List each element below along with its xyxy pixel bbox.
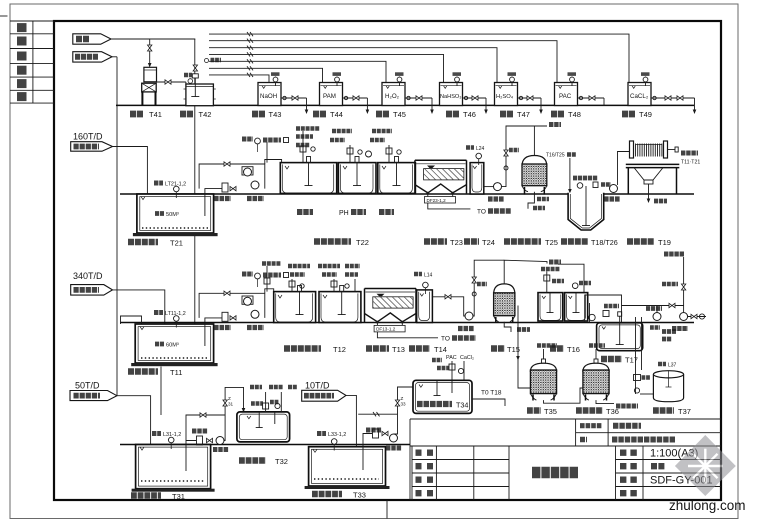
svg-text:Z: Z [228, 396, 231, 401]
svg-text:T24: T24 [482, 238, 495, 247]
label T46 [446, 110, 476, 119]
manifold loop [199, 293, 265, 318]
svg-text:zhulong.com: zhulong.com [669, 498, 746, 513]
label T37 [653, 407, 691, 416]
dosing hardware above T22-3 [370, 131, 401, 163]
riser to T32 [223, 387, 245, 440]
T31 suction pipe [186, 441, 196, 472]
T13 sludge drains DF13-1,2 [374, 321, 476, 343]
T11 drain to row below [160, 367, 162, 416]
label T36 [576, 407, 619, 416]
basin T33 [305, 447, 390, 489]
T42 steam valve [193, 65, 197, 71]
reuse water tank T17 [597, 312, 643, 351]
svg-text:T23: T23 [450, 238, 463, 247]
label T12 [284, 345, 346, 354]
svg-text:T19: T19 [658, 238, 671, 247]
T36 outlet to reuse [596, 400, 638, 406]
pump labels [214, 196, 264, 201]
compartment name 1 [297, 209, 313, 215]
CaCl2 tank T49 [628, 72, 651, 105]
T15 top outlet [504, 260, 561, 284]
svg-text:T16: T16 [567, 345, 580, 354]
svg-text:PH: PH [339, 210, 349, 217]
svg-text:NaHSO₃: NaHSO₃ [440, 94, 462, 100]
label T23 [424, 238, 463, 247]
floor line row2 [120, 193, 694, 195]
设计 [416, 490, 434, 496]
flag compressed air inlet [73, 52, 112, 62]
svg-text:T11·T21: T11·T21 [681, 160, 700, 166]
T42 water fill fitting [205, 59, 222, 63]
discharge to T22 [265, 160, 282, 165]
dosing hardware above T12-1 [288, 266, 310, 292]
filter press T19 stand [626, 164, 680, 194]
valve [382, 431, 388, 435]
svg-text:T33: T33 [353, 490, 366, 499]
svg-text:T46: T46 [463, 110, 476, 119]
label T32 [239, 457, 288, 466]
svg-text:NaOH: NaOH [260, 93, 277, 100]
dissolving tank T42 [184, 84, 216, 106]
T19 discharge hopper [634, 168, 667, 203]
pump P21 [251, 181, 259, 189]
label T11 [128, 368, 182, 377]
label T31 [131, 492, 185, 501]
reuse water note [662, 332, 676, 340]
pump labels [192, 431, 229, 450]
svg-text:T12: T12 [333, 345, 346, 354]
P24 riser to filter T25 [502, 125, 562, 187]
svg-text:T13: T13 [392, 345, 405, 354]
svg-text:T14: T14 [434, 345, 447, 354]
dosing hardware above T12-2 [318, 266, 360, 292]
air main drop (long vertical) [116, 57, 118, 396]
T46 outlet with metering pump [463, 96, 488, 114]
svg-text:T11: T11 [170, 368, 182, 377]
svg-text:PAM: PAM [323, 93, 336, 100]
sand filter vessel T25 [522, 126, 547, 195]
title block texts [416, 426, 713, 494]
reuse header above T17 [622, 305, 684, 307]
svg-text:L24: L24 [476, 146, 485, 152]
valve [230, 186, 236, 190]
bottom margin divider [386, 500, 388, 519]
子项 label [580, 437, 587, 443]
compartment name 3 [379, 209, 394, 215]
manifold loop [199, 164, 265, 189]
T37 feed fittings [634, 317, 661, 394]
legend table top-left [10, 21, 54, 103]
pipe T41 to T42 [156, 80, 186, 85]
T15 drain note [504, 322, 530, 332]
T21 suction pipe [205, 189, 222, 216]
label T24 [464, 238, 495, 247]
T12-1 mixer [296, 286, 304, 316]
reaction tank T22 compartment 1 [280, 163, 336, 194]
reaction tank T22 compartment 2 [338, 163, 376, 194]
svg-text:T48: T48 [568, 110, 581, 119]
label T42 [180, 110, 211, 119]
T41 rotary valve box [142, 83, 157, 92]
label T16 [550, 345, 580, 354]
T44 outlet with metering pump [343, 96, 370, 114]
floor line bottom row [120, 444, 410, 446]
svg-text:T32: T32 [275, 457, 288, 466]
svg-text:T37: T37 [678, 407, 691, 416]
flag steam inlet [73, 34, 111, 44]
air pipe stub from flag2 [112, 56, 117, 58]
pump P24 [484, 183, 504, 199]
header break marks [247, 32, 253, 77]
flag cyanide wastewater [70, 391, 117, 401]
hopper T41 upper bin [144, 67, 157, 82]
floor line row3 [120, 322, 694, 324]
svg-text:T21: T21 [170, 238, 183, 247]
subproject value 电镀工业废水处理工程 [612, 437, 676, 443]
图别 [620, 463, 637, 469]
svg-text:TO: TO [477, 209, 486, 216]
P14 riser to T15 [472, 260, 504, 316]
ground line row1 [116, 104, 694, 106]
svg-text:L14: L14 [424, 272, 433, 278]
dosing water header 5 (to T45) [209, 61, 386, 82]
strainer [373, 429, 379, 438]
intermediate tank T14 [417, 290, 433, 323]
NaHSO3 tank T46 [440, 72, 463, 105]
审核 [416, 463, 434, 469]
strainer [222, 183, 228, 192]
T49 outlet with metering pump [651, 96, 696, 114]
reaction tank T12 compartment 1 [274, 292, 316, 323]
dosing water header 1 (to T49) [209, 34, 629, 82]
PH21 probe [242, 138, 260, 152]
svg-text:H₂SO₄: H₂SO₄ [496, 94, 514, 100]
T47 outlet with metering pump [518, 96, 543, 114]
label T47 [500, 110, 530, 119]
flag concentrated cyanide wastewater [302, 390, 346, 401]
T33 suction pipe [363, 434, 372, 471]
valve [230, 316, 236, 320]
steam main drop (long vertical) [194, 39, 196, 362]
flag plating wastewater [71, 285, 113, 296]
pump labels [366, 430, 402, 448]
manifold box above T17 [585, 295, 622, 322]
steam pipe to T42 [111, 38, 195, 40]
level transmitter L31 [152, 432, 181, 449]
reaction tank T34 [413, 380, 472, 413]
svg-text:CaCl₂: CaCl₂ [460, 355, 474, 361]
label T25 [504, 238, 558, 247]
label T48 [551, 110, 581, 119]
backwash feed line [662, 254, 686, 312]
svg-text:33: 33 [401, 402, 407, 407]
strainer [222, 312, 228, 321]
multimedia filter T36 [583, 349, 609, 401]
svg-text:T31: T31 [172, 492, 185, 501]
level transmitter LT21 [154, 181, 186, 198]
label T44 [313, 110, 343, 119]
svg-text:PAC: PAC [446, 355, 457, 361]
T25 drains [528, 192, 549, 209]
svg-text:Z: Z [401, 396, 404, 401]
svg-text:10T/D: 10T/D [305, 381, 330, 391]
drawing-title cell [615, 446, 617, 500]
label T14 [409, 345, 447, 354]
TITLE BLOCK [410, 419, 721, 500]
settler T23 [415, 160, 467, 193]
T34 dosing: PAC / CaCl2 [432, 355, 474, 380]
left margin tick [0, 15, 8, 17]
T11 suction pipe [205, 318, 222, 346]
svg-text:340T/D: 340T/D [73, 271, 103, 281]
日期 [620, 490, 637, 496]
svg-text:T0 T18: T0 T18 [481, 390, 502, 397]
图号 [620, 477, 637, 483]
校对 [416, 477, 434, 483]
T21 volume note [155, 212, 179, 218]
label T17 [601, 355, 638, 364]
label T33 [312, 490, 366, 499]
svg-text:TO: TO [441, 336, 450, 343]
inlet pipe to T11 [113, 290, 167, 331]
T48 outlet with metering pump [578, 96, 605, 106]
NaOH dosing line into T22-1 [267, 129, 320, 163]
watermark logo [675, 435, 736, 496]
label T21 [128, 238, 183, 247]
pump labels [214, 325, 264, 330]
svg-text:L37: L37 [668, 362, 677, 368]
label T13 [366, 345, 405, 354]
LS11 level switch [263, 273, 289, 278]
carbon filter T35 [530, 349, 556, 401]
T23 sludge drains DF23-1,2 [425, 192, 512, 216]
svg-text:50T/D: 50T/D [75, 381, 100, 391]
svg-text:T43: T43 [269, 110, 282, 119]
svg-text:T34: T34 [456, 400, 468, 409]
valve [207, 438, 213, 442]
inlet pipe to T21 [113, 147, 150, 201]
svg-text:31: 31 [228, 402, 234, 407]
svg-text:T49: T49 [639, 110, 652, 119]
T33 transfer header [358, 412, 397, 416]
svg-text:H₂O₂: H₂O₂ [385, 93, 400, 100]
label T45 [376, 110, 406, 119]
T14 outlet to pump P14 [432, 295, 474, 329]
T16 dosing [541, 269, 564, 293]
T32 mixers [256, 412, 275, 428]
label T22 [314, 238, 369, 247]
svg-text:T16/T25: T16/T25 [546, 153, 565, 159]
legend row chars [17, 28, 27, 97]
label T41 [130, 110, 162, 119]
T34 mixers [434, 380, 453, 396]
dosing water header 2 (to T48) [209, 41, 557, 83]
T45 outlet with metering pump [405, 96, 434, 114]
T43 outlet with metering pump [281, 96, 308, 114]
big title 工艺流程图 [532, 467, 578, 479]
label T35 [527, 407, 557, 416]
svg-text:T44: T44 [330, 110, 343, 119]
label T43 [252, 110, 281, 119]
label T18/T26 [561, 238, 618, 247]
svg-text:T45: T45 [393, 110, 406, 119]
PH11 probe [242, 273, 260, 287]
reaction tank T12 compartment 2 [319, 292, 361, 323]
svg-text:50M³: 50M³ [166, 212, 179, 218]
neutralization tank T16-B [565, 293, 588, 321]
pump V17 [646, 306, 662, 321]
审定 [416, 450, 434, 456]
T16 to T17 fittings [589, 306, 619, 321]
reaction tank T32 [237, 412, 290, 442]
T22-1 mixer [305, 157, 313, 187]
level transmitter LT11 [154, 311, 186, 328]
label T15 [491, 345, 520, 354]
label T34 (inside) [417, 400, 468, 409]
settler T13 [365, 289, 417, 323]
T41 support stand [142, 92, 155, 106]
dosing water header 3 (to T47) [209, 48, 497, 83]
project value 常州电缆厂 [613, 423, 641, 429]
intermediate tank T24 [470, 163, 484, 194]
T18/T26 instruments [573, 178, 611, 188]
strainer [197, 436, 203, 445]
T16 discharge note [558, 264, 584, 292]
PH22 probe [366, 151, 372, 157]
L14 level [414, 272, 433, 294]
pump P11 [251, 310, 259, 318]
inlet pipe to T33 [346, 395, 358, 452]
basin T21 [133, 194, 218, 236]
svg-text:60M³: 60M³ [166, 342, 179, 348]
PAM tank T44 [320, 72, 343, 105]
dosing line into T12-1 [262, 264, 281, 292]
T34 overflow TO T18 [472, 390, 505, 407]
pump V11 [244, 297, 252, 305]
T22-2 mixer [353, 157, 361, 187]
T22-3 mixer [393, 157, 401, 187]
工程项目 label [580, 423, 602, 428]
T42 mixer [191, 74, 199, 97]
dosing water header 7 (to T43) [209, 75, 269, 83]
T35 feed line [516, 306, 530, 389]
T35 to T36 pipe [544, 388, 583, 403]
PH16 probe [572, 283, 591, 289]
neutralization tank T16-A [538, 293, 563, 321]
H2SO4 tank T47 [495, 72, 518, 105]
T36 note [589, 343, 605, 348]
比例 [620, 450, 637, 456]
T42 level gauge [184, 75, 193, 83]
NaOH tank T43 [258, 72, 281, 105]
H2O2 tank T45 [382, 72, 405, 105]
pump P17 [672, 313, 688, 329]
svg-text:T42: T42 [199, 110, 212, 119]
sludge thickener T18/T26 [568, 186, 604, 230]
T11 inlet channel [121, 316, 142, 324]
dosing water header 6 (to T44) [209, 68, 323, 82]
label T49 [622, 110, 652, 119]
filter press T19 plate pack [630, 141, 679, 158]
signature sub-table [411, 446, 413, 500]
L24 level [466, 146, 485, 165]
discharge to T12 [265, 289, 274, 294]
svg-text:T18/T26: T18/T26 [591, 238, 618, 247]
compartment name 2 [339, 210, 366, 217]
svg-text:T25: T25 [545, 238, 558, 247]
thick drawing frame [54, 21, 721, 500]
level transmitter L33 [317, 432, 346, 451]
svg-text:T47: T47 [517, 110, 530, 119]
label T19 [627, 238, 671, 247]
T11 volume note [155, 342, 179, 348]
工艺 value [651, 463, 665, 469]
T35 note [537, 343, 557, 348]
svg-text:CaCL₂: CaCL₂ [630, 93, 649, 100]
sand filter vessel T15 [494, 284, 515, 323]
svg-text:L33-1,2: L33-1,2 [328, 432, 346, 438]
clean water tank T37 [653, 371, 683, 402]
T32 dosing hardware [250, 387, 297, 412]
P17 outlet valves [688, 314, 706, 319]
svg-text:T22: T22 [356, 238, 369, 247]
pump P33 [390, 434, 398, 442]
pump P18 [604, 152, 630, 200]
svg-text:DF23-1,2: DF23-1,2 [427, 198, 447, 203]
T12-2 mixer [338, 286, 346, 316]
T31 transfer line [186, 413, 225, 441]
svg-text:PAC: PAC [559, 93, 572, 100]
dosing water header 4 (to T46) [209, 54, 444, 82]
pump P31 [216, 437, 224, 445]
svg-text:160T/D: 160T/D [73, 132, 103, 142]
dosing hardware above T22-2 [330, 131, 362, 163]
svg-text:T35: T35 [544, 407, 557, 416]
riser to T34 [394, 387, 414, 434]
inlet pipe to T31 [117, 396, 153, 451]
basin T11 [131, 324, 217, 366]
svg-text:DF13-1,2: DF13-1,2 [376, 327, 396, 332]
reaction tank T22 compartment 3 [378, 163, 416, 194]
L37 level [658, 362, 677, 368]
backwash line T16/T25 to thickener [546, 153, 576, 194]
basin T31 [132, 445, 215, 492]
flag comprehensive wastewater [71, 142, 113, 152]
LS21 level switch [263, 138, 289, 143]
feed drop to T41 with valve [149, 39, 151, 65]
T19 filtrate return note [681, 153, 700, 166]
svg-text:T17: T17 [625, 355, 638, 364]
svg-text:T41: T41 [149, 110, 162, 119]
title block outline [410, 418, 721, 420]
pump Y21 [244, 168, 252, 176]
PAC tank T48 [555, 72, 578, 105]
